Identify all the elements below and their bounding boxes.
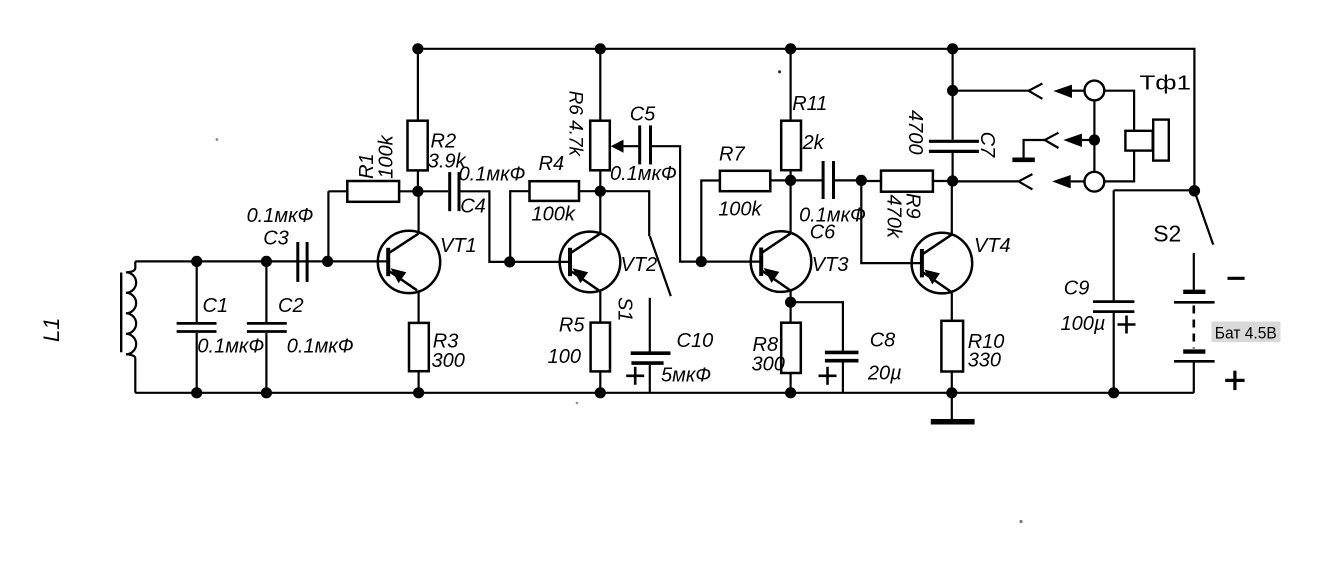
resistor R6 (with wiper) — [590, 121, 610, 171]
svg-text:Тф1: Тф1 — [1140, 71, 1192, 94]
label C9 100u — [1061, 277, 1106, 335]
label 4700 (C7 value) — [904, 110, 926, 155]
svg-text:Бат 4.5В: Бат 4.5В — [1215, 325, 1277, 343]
wire C10 bottom lead — [649, 365, 651, 393]
label R9 470k — [883, 193, 924, 239]
resistor R11 — [781, 121, 801, 171]
svg-text:2k: 2k — [802, 132, 825, 154]
svg-text:0.1мкФ: 0.1мкФ — [197, 335, 264, 357]
label S2 — [1153, 221, 1181, 247]
node C7 bottom / R9 / VT4 collector — [947, 175, 958, 186]
svg-text:C4: C4 — [460, 196, 486, 218]
node R7-R11-C6-VT3 junction — [785, 175, 796, 186]
svg-text:100k: 100k — [376, 134, 398, 178]
label VT4 — [974, 235, 1011, 257]
switch S1 blade — [650, 236, 671, 296]
battery dashed middle — [1193, 306, 1196, 349]
label C5 0.1mkF — [610, 104, 677, 186]
node top rail at R6 — [595, 43, 606, 54]
label C7 — [976, 132, 998, 158]
plus sign of C8 — [819, 367, 837, 385]
svg-text:S2: S2 — [1153, 221, 1181, 247]
earphone Тф1 wires — [1104, 91, 1134, 182]
wire R10 bottom lead — [951, 372, 953, 393]
svg-text:470k: 470k — [883, 195, 905, 239]
speck artifacts — [216, 70, 1023, 523]
label R8 300 — [752, 334, 785, 375]
node C6-R9-VT4 base junction — [856, 175, 867, 186]
phones jack row1: plug ring — [1085, 81, 1105, 101]
node VT3 emitter / R8 / C8 — [785, 297, 796, 308]
transistor VT3 — [751, 231, 812, 292]
wire R7 left lead corner — [701, 181, 720, 262]
switch S2 blade — [1195, 192, 1213, 245]
node C2 bottom rail — [261, 387, 272, 398]
resistor R4 — [530, 181, 580, 201]
label R6 4.7k — [564, 91, 585, 158]
svg-text:100µ: 100µ — [1061, 313, 1106, 335]
svg-text:L1: L1 — [39, 318, 64, 342]
capacitor C9 (electrolytic) — [1093, 302, 1134, 312]
svg-text:330: 330 — [968, 350, 1001, 372]
plus sign of C10 — [626, 367, 644, 385]
arrow head into R6 wiper — [611, 140, 624, 153]
transistor VT4 — [912, 233, 973, 294]
label C2 0.1mkF — [278, 295, 354, 357]
phones jack row2: ground + chevron — [1012, 133, 1058, 160]
wire R6 bottom lead — [599, 170, 601, 191]
wire C5 wiper arrow line — [622, 145, 638, 147]
node R10 bottom rail — [946, 387, 957, 398]
label Tf1 — [1140, 71, 1192, 94]
node R1-R2-C4 junction — [412, 186, 423, 197]
svg-text:100: 100 — [548, 346, 581, 368]
battery cell 1 long plate — [1174, 301, 1215, 304]
wire R9 left lead — [861, 180, 881, 182]
wire C9 bottom lead — [1113, 312, 1115, 392]
resistor R9 — [881, 171, 933, 192]
svg-text:C3: C3 — [263, 228, 289, 250]
wire top supply rail — [418, 49, 1195, 191]
svg-text:C7: C7 — [976, 132, 998, 158]
svg-text:VT3: VT3 — [812, 254, 849, 276]
wire R2 bottom lead — [417, 170, 419, 191]
svg-text:5мкФ: 5мкФ — [661, 365, 711, 387]
node C9 bottom rail — [1108, 387, 1119, 398]
wire phones row1 — [953, 90, 1029, 92]
phones jack row1: plug arrow — [1053, 85, 1084, 98]
transistor VT1 — [378, 231, 440, 293]
label Bat 4.5V — [1212, 322, 1281, 343]
node R3 bottom rail — [413, 387, 424, 398]
phones jack row3: plug arrow — [1052, 175, 1084, 188]
node after C3 / VT1 base — [322, 256, 333, 267]
wire R4 left lead corner — [510, 191, 529, 262]
svg-text:R11: R11 — [792, 93, 827, 115]
svg-text:R7: R7 — [719, 143, 745, 165]
wire base row left: L1 top to VT1 base — [135, 260, 388, 262]
svg-text:20µ: 20µ — [867, 362, 902, 384]
node S2 pivot — [1189, 185, 1200, 196]
svg-text:C6: C6 — [810, 222, 836, 244]
node R5 bottom rail — [595, 387, 606, 398]
wire bottom rail — [135, 392, 1194, 394]
coil L1 core bar — [120, 273, 122, 353]
label R1 100k — [356, 134, 398, 179]
svg-text:R4: R4 — [539, 153, 565, 175]
battery cell 1 short plate — [1183, 290, 1205, 294]
svg-text:C10: C10 — [677, 330, 714, 352]
wire R11 top lead — [789, 49, 791, 121]
battery cell 2 short plate — [1183, 349, 1205, 353]
wire R7 right lead — [770, 179, 790, 181]
wire R9 right lead — [933, 180, 953, 182]
wire R1 riser from base node — [328, 191, 347, 261]
svg-text:R5: R5 — [559, 314, 585, 336]
svg-text:100k: 100k — [532, 204, 576, 226]
svg-text:100k: 100k — [718, 198, 762, 220]
wire C9 top lead — [1113, 190, 1115, 301]
phones jack row3: chevron — [1019, 174, 1033, 189]
wire C5 out loop down to VT3 base row — [652, 146, 702, 261]
wire R6 top lead — [599, 49, 601, 121]
capacitor C2 — [247, 323, 287, 331]
label C10 5mkF — [661, 330, 713, 387]
wire node to C4 left plate — [418, 190, 448, 192]
wire C8 bottom lead — [842, 363, 844, 393]
resistor R2 — [408, 121, 428, 171]
capacitor C4 — [450, 172, 459, 211]
phones jack row3: plug ring — [1085, 172, 1105, 192]
label C6 0.1mkF — [799, 204, 866, 243]
wire S2 feed from rail node to C9 — [1114, 189, 1195, 191]
svg-text:300: 300 — [752, 353, 785, 375]
label R4 — [532, 153, 576, 226]
phones jack row1: chevron — [1029, 84, 1043, 99]
wire VT2 base lead — [510, 261, 570, 263]
battery Бат top terminal wire — [1193, 253, 1195, 290]
node C2 top — [261, 256, 272, 267]
wire C7 column lower — [951, 153, 953, 181]
node top rail at C7 — [947, 43, 958, 54]
svg-text:0.1мкФ: 0.1мкФ — [459, 163, 526, 185]
wire C1 branch — [196, 261, 198, 392]
wire R4 right lead — [579, 190, 600, 192]
transistor VT2 — [560, 232, 621, 293]
wire left column with coil — [126, 261, 136, 392]
node VT2 base / C4 / R4 — [504, 256, 515, 267]
wire VT2 collector riser — [599, 191, 601, 233]
svg-text:C5: C5 — [630, 104, 656, 126]
svg-text:C9: C9 — [1064, 277, 1090, 299]
wire VT4 collector riser — [951, 181, 953, 235]
wire R5 bottom lead — [599, 371, 601, 392]
svg-text:C1: C1 — [203, 295, 229, 317]
wire R3 bottom lead — [418, 371, 420, 393]
resistor R8 — [781, 323, 801, 373]
svg-text:C8: C8 — [870, 330, 896, 352]
wire R8 bottom lead — [789, 373, 791, 393]
wire VT2 emitter to R5 — [599, 290, 601, 322]
svg-text:300: 300 — [432, 350, 465, 372]
capacitor C6 — [823, 161, 833, 199]
resistor R10 — [941, 321, 963, 372]
wire C7 column upper — [951, 49, 953, 140]
label R5 100 — [548, 314, 586, 368]
wire C4 out, corner down to VT2 base node — [460, 191, 509, 262]
node R8 bottom rail — [785, 387, 796, 398]
label R2 3.9k — [428, 131, 467, 173]
capacitor C7 — [929, 141, 979, 151]
earphone Тф1 coil box — [1125, 131, 1152, 151]
wire C2 branch — [265, 261, 267, 392]
label C3 0.1mkF — [247, 205, 314, 250]
wire VT3 base lead — [701, 261, 761, 263]
wire VT3 collector riser — [789, 180, 791, 233]
wire R2 top lead — [417, 49, 419, 121]
battery plus sign — [1225, 371, 1244, 390]
svg-text:4700: 4700 — [904, 110, 926, 155]
svg-text:0.1мкФ: 0.1мкФ — [287, 335, 354, 357]
svg-text:R2: R2 — [431, 131, 457, 153]
svg-text:S1: S1 — [613, 297, 635, 321]
wire between plug rings — [1093, 100, 1095, 171]
wire S1 fixed contact to C10 — [649, 298, 651, 352]
label VT2 — [621, 254, 658, 276]
wire VT1 collector riser — [418, 191, 420, 233]
capacitor C10 (electrolytic) — [631, 353, 671, 363]
resistor R1 — [347, 181, 399, 202]
wire S1 feed from VT2 collector node — [600, 191, 649, 236]
node R6-R4-VT2 junction — [595, 186, 606, 197]
node C1 top — [191, 256, 202, 267]
label VT3 — [812, 254, 849, 276]
label VT1 — [440, 235, 477, 257]
node phones middle — [1089, 134, 1100, 145]
label C4 0.1mkF — [459, 163, 526, 217]
plus sign of C9 — [1118, 316, 1136, 334]
wire VT3 emitter to node — [789, 291, 791, 323]
label C8 20u — [867, 330, 902, 385]
wire R1 right lead to node — [399, 190, 418, 192]
label L1 — [39, 318, 64, 342]
label S1 — [613, 297, 635, 321]
svg-text:R6 4.7k: R6 4.7k — [564, 91, 585, 158]
battery cell 2 long plate — [1174, 360, 1215, 363]
node top rail at R11 — [785, 43, 796, 54]
wire C8 branch — [791, 302, 843, 350]
capacitor C8 (electrolytic) — [825, 352, 859, 360]
wire VT4 emitter to R10 — [951, 292, 953, 321]
ground symbol under R10 — [931, 393, 975, 422]
resistor R7 — [720, 171, 770, 191]
node VT3 base / R7 / C5 — [696, 256, 707, 267]
label R11 2k — [792, 93, 827, 154]
svg-text:C2: C2 — [278, 295, 304, 317]
svg-text:VT4: VT4 — [974, 235, 1011, 257]
wire VT4 base drop and lead — [861, 180, 921, 263]
capacitor C3 — [298, 242, 307, 282]
label C1 0.1mkF — [197, 295, 264, 357]
capacitor C1 — [177, 323, 217, 331]
node top rail at R2 — [412, 43, 423, 54]
resistor R3 — [409, 323, 429, 371]
wire VT1 emitter to R3 — [418, 290, 420, 323]
label R7 100k — [718, 143, 762, 220]
svg-text:VT1: VT1 — [440, 235, 477, 257]
capacitor C5 — [640, 125, 651, 164]
svg-text:0.1мкФ: 0.1мкФ — [610, 163, 677, 185]
wire C6 right plate to node — [834, 179, 861, 181]
wire R11 bottom lead — [789, 170, 791, 180]
node C7 top / phones out — [947, 85, 958, 96]
label R3 300 — [432, 331, 465, 372]
svg-text:0.1мкФ: 0.1мкФ — [247, 205, 314, 227]
node C1 bottom rail — [191, 387, 202, 398]
label R10 330 — [968, 331, 1005, 372]
resistor R5 — [591, 323, 610, 372]
battery minus sign — [1228, 277, 1245, 280]
earphone Тф1 body box — [1153, 120, 1169, 161]
svg-text:VT2: VT2 — [621, 254, 658, 276]
wire node to C6 left plate — [791, 179, 823, 181]
phones jack row2: plug arrow — [1063, 134, 1089, 147]
wire phones row3 — [953, 180, 1019, 182]
battery bottom terminal wire — [1193, 361, 1195, 393]
